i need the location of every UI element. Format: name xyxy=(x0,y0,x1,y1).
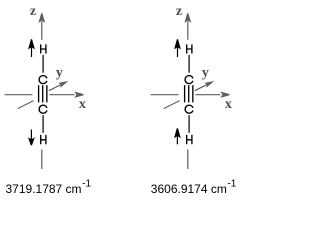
x axis positive segment with arrowhead (right) xyxy=(196,92,230,98)
bond H1-C1 (left) xyxy=(42,55,44,73)
atom C1 (left top) xyxy=(39,76,47,84)
triple bond C1-C2 (right) xyxy=(185,85,193,102)
svg-text:3719.1787 cm-1: 3719.1787 cm-1 xyxy=(6,179,92,196)
svg-text:x: x xyxy=(225,97,232,112)
y axis arrow (left) xyxy=(49,81,69,91)
atom H1 (right top) xyxy=(187,44,192,53)
svg-text:z: z xyxy=(30,4,36,19)
triple bond C1-C2 (left) xyxy=(39,85,47,102)
negative y axis segment (right) xyxy=(164,101,180,109)
svg-text:y: y xyxy=(56,66,63,81)
atom H2 (right bottom) xyxy=(187,135,192,144)
x axis positive segment with arrowhead (left) xyxy=(50,92,84,98)
z axis arrow (left) xyxy=(38,13,45,40)
x axis negative segment (right) xyxy=(151,94,179,96)
bond C2-H2 (right) xyxy=(188,115,190,133)
bond C2-H2 (left) xyxy=(42,115,44,133)
y axis arrow (right) xyxy=(195,81,215,91)
negative z axis segment (left) xyxy=(41,150,43,170)
vibration arrow on H1 (right, up) xyxy=(174,39,181,57)
vibration arrow on H2 (right, up) xyxy=(174,128,181,144)
atom C1 (right top) xyxy=(185,76,193,84)
vibration arrow on H1 (left, up) xyxy=(28,39,35,57)
negative z axis segment (right) xyxy=(187,150,189,170)
negative y axis segment (left) xyxy=(18,101,34,109)
x axis negative segment (left) xyxy=(5,94,33,96)
svg-text:3606.9174 cm-1: 3606.9174 cm-1 xyxy=(151,179,237,196)
atom H2 (left bottom) xyxy=(41,135,46,144)
atom C2 (right bottom) xyxy=(185,105,193,113)
z axis arrow (right) xyxy=(184,13,191,40)
svg-text:z: z xyxy=(176,4,182,19)
vibration arrow on H2 (left, down) xyxy=(28,130,35,146)
bond H1-C1 (right) xyxy=(188,55,190,73)
atom C2 (left bottom) xyxy=(39,105,47,113)
atom H1 (left top) xyxy=(41,44,46,53)
svg-text:y: y xyxy=(202,66,209,81)
svg-text:x: x xyxy=(79,97,86,112)
